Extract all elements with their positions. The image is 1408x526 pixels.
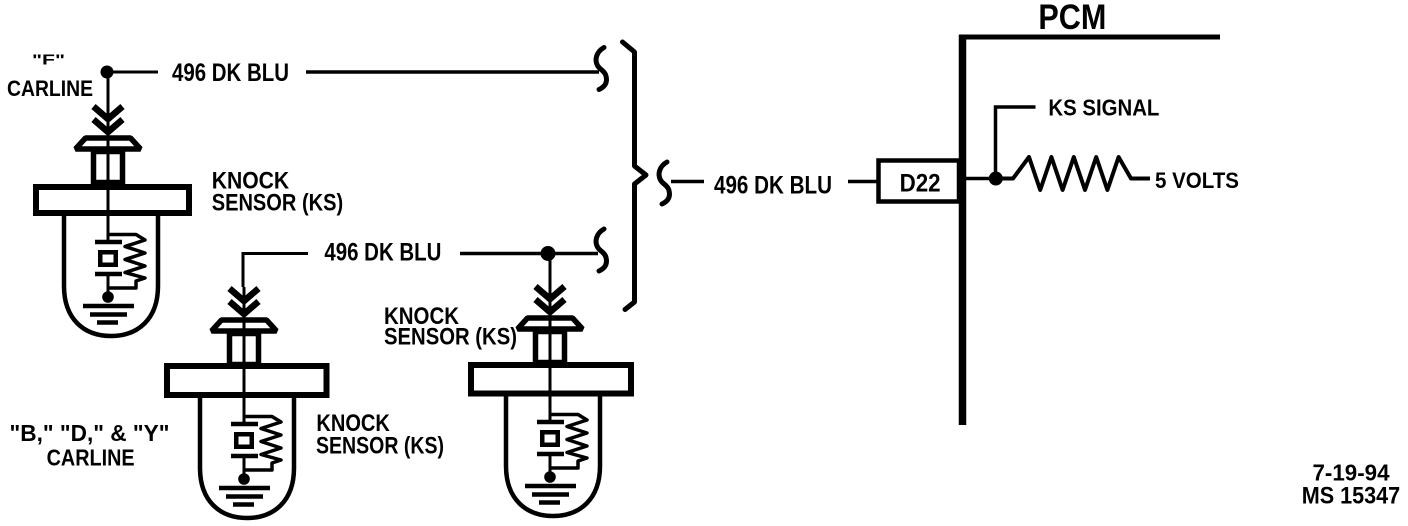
svg-text:D22: D22 [900, 170, 941, 198]
svg-text:496 DK BLU: 496 DK BLU [324, 239, 441, 267]
svg-text:496 DK BLU: 496 DK BLU [172, 59, 289, 87]
svg-text:SENSOR (KS): SENSOR (KS) [316, 433, 444, 460]
svg-text:PCM: PCM [1038, 0, 1106, 37]
svg-text:MS 15347: MS 15347 [1302, 483, 1401, 510]
svg-text:SENSOR (KS): SENSOR (KS) [212, 190, 344, 217]
svg-text:"F": "F" [32, 52, 65, 69]
svg-text:496 DK BLU: 496 DK BLU [714, 172, 832, 200]
svg-text:CARLINE: CARLINE [47, 445, 135, 471]
svg-text:KS SIGNAL: KS SIGNAL [1048, 95, 1159, 121]
svg-text:SENSOR (KS): SENSOR (KS) [384, 324, 517, 351]
svg-text:"B," "D," & "Y": "B," "D," & "Y" [10, 420, 170, 446]
svg-text:CARLINE: CARLINE [7, 76, 93, 101]
svg-text:5 VOLTS: 5 VOLTS [1155, 168, 1239, 193]
